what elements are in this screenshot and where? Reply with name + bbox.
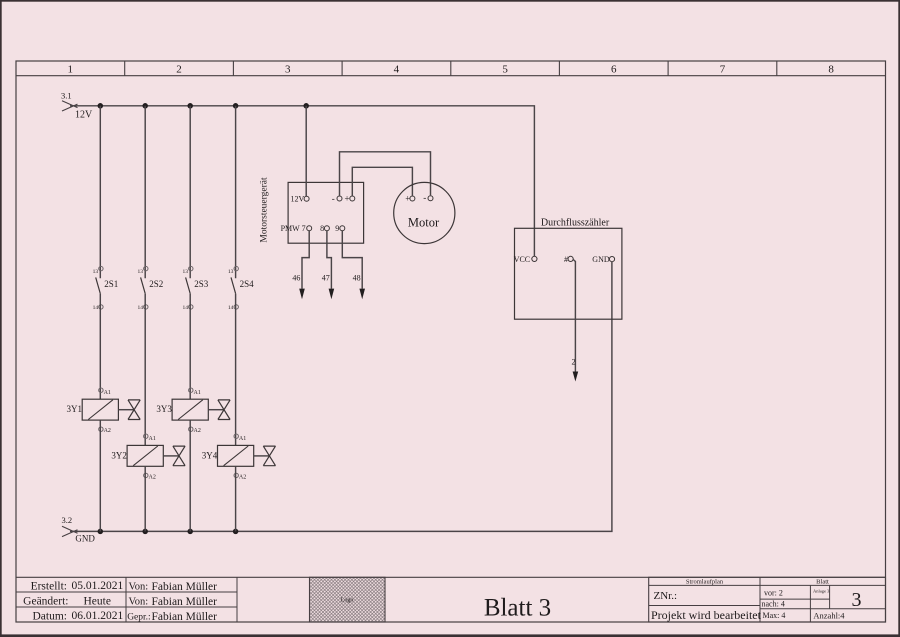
svg-text:8: 8 <box>828 63 834 75</box>
wire w3 middle <box>189 294 191 400</box>
switch 2S2 blade <box>141 277 146 293</box>
svg-text:Motorsteuergerät: Motorsteuergerät <box>259 177 269 243</box>
svg-text:A1: A1 <box>239 436 246 442</box>
column divider 4 <box>450 61 452 76</box>
arrow 2 <box>573 372 579 382</box>
wire 3Y4 to valve <box>254 455 270 457</box>
junction dot rail1-w4 <box>233 103 239 109</box>
column divider 2 <box>232 61 234 76</box>
svg-text:14: 14 <box>93 305 99 311</box>
wire w2 middle <box>144 294 146 446</box>
logo box <box>310 577 386 622</box>
svg-text:2: 2 <box>572 358 576 367</box>
svg-text:13: 13 <box>228 269 234 275</box>
svg-text:A2: A2 <box>194 428 201 434</box>
coil 3Y1 <box>82 399 118 420</box>
svg-text:13: 13 <box>183 269 189 275</box>
column divider 6 <box>667 61 669 76</box>
switch 2S2 terminal 13 <box>144 266 148 270</box>
wire 3Y1 to valve <box>118 409 134 411</box>
valve symbol 3Y3 <box>218 400 230 420</box>
svg-text:3: 3 <box>285 63 291 75</box>
svg-text:8: 8 <box>320 224 324 233</box>
switch 2S2 terminal 14 <box>144 305 148 309</box>
switch 2S1 blade <box>96 277 101 293</box>
svg-text:Datum:: Datum: <box>33 611 68 623</box>
svg-text:Von:: Von: <box>129 597 149 608</box>
svg-text:3: 3 <box>852 589 862 611</box>
switch 2S3 terminal 13 <box>189 266 193 270</box>
column divider 1 <box>124 61 126 76</box>
left title table horizontals <box>16 591 237 593</box>
svg-text:05.01.2021: 05.01.2021 <box>72 580 124 592</box>
svg-text:A2: A2 <box>239 474 246 480</box>
svg-text:6: 6 <box>611 63 617 75</box>
svg-text:14: 14 <box>228 305 234 311</box>
wire 3Y3 to valve <box>208 409 224 411</box>
svg-text:Fabian Müller: Fabian Müller <box>152 611 218 623</box>
svg-text:GND: GND <box>75 534 95 544</box>
title strip top line <box>16 576 886 578</box>
svg-text:Gepr.:: Gepr.: <box>127 613 150 623</box>
svg-text:3Y1: 3Y1 <box>67 404 83 414</box>
svg-text:Logo: Logo <box>341 598 354 604</box>
svg-text:Max: 4: Max: 4 <box>763 611 786 620</box>
svg-text:47: 47 <box>322 274 330 283</box>
wire pin7 out <box>302 231 309 289</box>
svg-text:Stromlaufplan: Stromlaufplan <box>686 579 724 586</box>
svg-text:3Y2: 3Y2 <box>111 450 127 460</box>
junction dot rail2-w2 <box>142 529 148 535</box>
svg-text:Blatt 3: Blatt 3 <box>484 595 551 622</box>
svg-text:Fabian Müller: Fabian Müller <box>152 581 218 593</box>
coil 3Y4 terminal A1 <box>234 434 238 438</box>
switch 2S1 terminal 13 <box>99 266 103 270</box>
wire GND rail <box>70 262 612 532</box>
wire w1 upper <box>99 106 101 278</box>
svg-text:VCC: VCC <box>514 255 530 264</box>
wire w4 upper <box>235 106 237 278</box>
svg-text:Anlage 3: Anlage 3 <box>813 588 830 593</box>
svg-text:3Y4: 3Y4 <box>202 450 218 460</box>
svg-text:13: 13 <box>138 269 144 275</box>
column divider 5 <box>558 61 560 76</box>
motor M1 <box>394 182 455 243</box>
coil 3Y1 terminal A1 <box>99 388 103 392</box>
coil 3Y1 terminal A2 <box>99 427 103 431</box>
left title table verticals <box>125 577 127 622</box>
junction dot rail1-w3 <box>187 103 193 109</box>
valve symbol 3Y4 <box>263 446 275 466</box>
wire from # pin down <box>573 260 575 374</box>
svg-text:4: 4 <box>394 63 400 75</box>
junction dot rail1-msg <box>303 103 309 109</box>
svg-text:+: + <box>345 194 350 204</box>
svg-text:9: 9 <box>335 224 339 233</box>
wire w1 lower <box>99 420 101 531</box>
switch 2S3 terminal 14 <box>189 305 193 309</box>
wire plus to motor <box>352 167 412 196</box>
svg-text:2: 2 <box>176 63 182 75</box>
column header band bottom line <box>16 75 886 77</box>
svg-text:2S3: 2S3 <box>194 279 209 289</box>
svg-text:Heute: Heute <box>84 596 111 608</box>
wire w3 lower <box>189 420 191 531</box>
wire pin9 out <box>342 231 362 289</box>
svg-text:Blatt: Blatt <box>816 579 829 586</box>
svg-text:-: - <box>423 193 426 203</box>
svg-text:3.1: 3.1 <box>61 91 72 101</box>
svg-text:PMW 7: PMW 7 <box>281 224 306 233</box>
arrow 48 <box>359 289 365 300</box>
svg-text:-: - <box>332 194 335 204</box>
coil 3Y3 terminal A1 <box>189 388 193 392</box>
svg-text:nach: 4: nach: 4 <box>762 599 785 608</box>
valve symbol 3Y2 <box>173 446 185 466</box>
svg-text:2S2: 2S2 <box>149 279 163 289</box>
coil 3Y4 terminal A2 <box>234 473 238 477</box>
svg-text:3Y3: 3Y3 <box>156 404 172 414</box>
valve symbol 3Y1 <box>128 400 140 420</box>
svg-text:Geändert:: Geändert: <box>23 596 68 608</box>
coil 3Y3 terminal A2 <box>189 427 193 431</box>
svg-text:13: 13 <box>93 269 99 275</box>
wire w1 middle <box>99 294 101 400</box>
column divider 7 <box>776 61 778 76</box>
svg-text:2S4: 2S4 <box>240 279 255 289</box>
svg-text:12V: 12V <box>291 195 305 204</box>
svg-text:A2: A2 <box>149 474 156 480</box>
svg-text:Anzahl:4: Anzahl:4 <box>813 611 845 621</box>
junction dot rail2-w1 <box>98 529 104 535</box>
switch 2S3 blade <box>186 277 191 293</box>
node 3.2 arrow chevron <box>62 526 78 536</box>
svg-text:Von:: Von: <box>129 582 149 593</box>
svg-text:2S1: 2S1 <box>104 279 118 289</box>
junction dot rail1-w2 <box>142 103 148 109</box>
svg-text:7: 7 <box>720 63 726 75</box>
switch 2S4 terminal 13 <box>234 266 238 270</box>
svg-text:#: # <box>564 255 568 264</box>
column divider 3 <box>341 61 343 76</box>
svg-text:ZNr.:: ZNr.: <box>654 590 678 602</box>
svg-text:14: 14 <box>183 305 189 311</box>
svg-text:48: 48 <box>353 274 361 283</box>
svg-text:A1: A1 <box>194 390 201 396</box>
svg-text:Fabian Müller: Fabian Müller <box>152 596 218 608</box>
coil 3Y2 terminal A2 <box>144 473 148 477</box>
svg-text:14: 14 <box>138 305 144 311</box>
svg-text:Projekt wird bearbeitet: Projekt wird bearbeitet <box>651 608 762 622</box>
svg-text:vor: 2: vor: 2 <box>764 588 783 597</box>
coil 3Y2 terminal A1 <box>144 434 148 438</box>
junction dot rail2-w4 <box>233 529 239 535</box>
svg-text:46: 46 <box>292 274 300 283</box>
svg-text:A1: A1 <box>149 436 156 442</box>
svg-text:Erstellt:: Erstellt: <box>31 581 67 593</box>
svg-text:3.2: 3.2 <box>62 515 73 525</box>
arrow 46 <box>299 289 305 300</box>
switch 2S1 terminal 14 <box>99 305 103 309</box>
page outer border <box>0 0 900 2</box>
junction dot rail1-w1 <box>98 103 104 109</box>
wire pin8 out <box>327 231 332 289</box>
wire 3Y2 to valve <box>163 455 179 457</box>
wire 12V rail <box>70 106 534 256</box>
wire w4 lower <box>235 466 237 531</box>
svg-text:12V: 12V <box>75 110 93 121</box>
wire rail to 12V pin <box>305 106 307 196</box>
coil 3Y2 <box>127 445 163 466</box>
arrow 47 <box>329 289 335 300</box>
wire w3 upper <box>189 106 191 278</box>
coil 3Y4 <box>218 445 254 466</box>
wire w2 lower <box>144 466 146 531</box>
wire minus to motor <box>340 152 431 196</box>
switch 2S4 terminal 14 <box>234 305 238 309</box>
switch 2S4 blade <box>231 277 236 293</box>
svg-text:Motor: Motor <box>408 216 440 230</box>
wire w4 middle <box>235 294 237 446</box>
svg-text:06.01.2021: 06.01.2021 <box>72 610 124 622</box>
svg-text:GND: GND <box>592 255 610 264</box>
svg-text:5: 5 <box>502 63 508 75</box>
node 3.1 arrow chevron <box>62 101 78 111</box>
svg-text:A2: A2 <box>104 428 111 434</box>
svg-text:1: 1 <box>68 63 74 75</box>
coil 3Y3 <box>172 399 208 420</box>
junction dot rail2-w3 <box>187 529 193 535</box>
right title table <box>649 577 886 622</box>
svg-text:Durchflusszähler: Durchflusszähler <box>541 218 610 229</box>
wire w2 upper <box>144 106 146 278</box>
svg-text:A1: A1 <box>104 390 111 396</box>
